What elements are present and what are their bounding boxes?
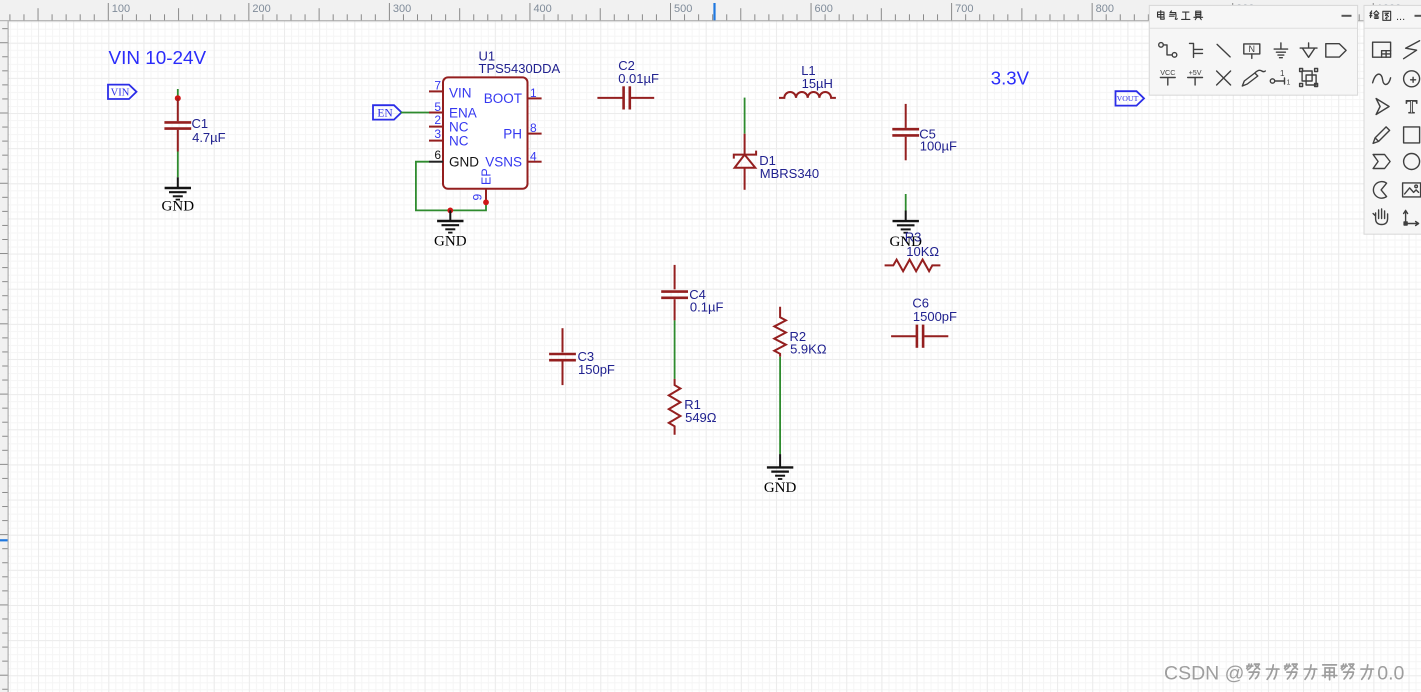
icon pencil [1373, 127, 1390, 144]
wire stub above junction [177, 89, 179, 98]
icon origin tool [1404, 211, 1419, 226]
left ruler cursor mark [0, 539, 8, 541]
netflag VIN [108, 85, 137, 99]
svg-text:8: 8 [530, 121, 537, 135]
svg-text:NC: NC [449, 119, 469, 134]
ground GND (under U1) [434, 210, 467, 249]
ground GND (under C1) [162, 177, 195, 214]
U1 pin 4 VSNS [528, 161, 542, 163]
svg-text:EN: EN [377, 107, 393, 119]
svg-text:GND: GND [434, 233, 467, 249]
svg-text:T: T [1406, 97, 1418, 118]
icon net label tool [1244, 44, 1260, 59]
panel: electrical tools [1149, 5, 1357, 95]
svg-text:0.0: 0.0 [1377, 663, 1404, 685]
svg-text:+5V: +5V [1189, 68, 1202, 77]
svg-text:200: 200 [252, 3, 270, 15]
svg-text:5.9KΩ: 5.9KΩ [790, 342, 827, 357]
left ruler ticks [2, 28, 7, 30]
svg-text:GND: GND [162, 199, 195, 215]
icon VCC tool [1160, 68, 1175, 85]
svg-text:N: N [1249, 44, 1256, 54]
svg-text:4: 4 [530, 149, 537, 163]
icon pin tool [1270, 69, 1290, 87]
netflag VOUT [1116, 91, 1145, 105]
icon wire tool [1159, 43, 1177, 58]
panel: drawing tools [1364, 5, 1421, 234]
diode D1 MBRS340 (schottky) [734, 134, 819, 190]
icon rect tool [1404, 127, 1420, 143]
svg-text:300: 300 [393, 3, 411, 15]
icon line tool [1217, 44, 1230, 57]
svg-text:15µH: 15µH [802, 76, 833, 91]
svg-text:VCC: VCC [1160, 68, 1175, 77]
U1 pin 6 GND [429, 161, 443, 163]
svg-text:MBRS340: MBRS340 [760, 166, 819, 181]
junction dot (EP pin) [483, 199, 489, 205]
svg-text:VSNS: VSNS [485, 155, 522, 170]
svg-text:VIN: VIN [111, 87, 130, 98]
capacitor C3 [549, 328, 615, 385]
svg-text:GND: GND [764, 480, 797, 496]
top ruler cursor mark [713, 3, 715, 20]
capacitor C4 [661, 265, 723, 321]
svg-text:BOOT: BOOT [484, 91, 522, 106]
icon arc tool [1373, 182, 1386, 199]
wire to D1 [744, 98, 746, 134]
wire C5 to ground [905, 194, 907, 211]
svg-text:9: 9 [471, 194, 485, 201]
watermark CSDN [1164, 663, 1405, 685]
icon symbol-wizard [1373, 42, 1391, 57]
svg-text:VOUT: VOUT [1117, 94, 1139, 103]
wire C1 to ground [177, 152, 179, 178]
wire R2 to ground [779, 357, 781, 454]
svg-text:700: 700 [955, 3, 973, 15]
svg-text:4.7µF: 4.7µF [192, 130, 226, 145]
icon ground alt tool [1300, 43, 1317, 57]
svg-text:TPS5430DDA: TPS5430DDA [479, 61, 561, 76]
icon ground tool [1274, 43, 1287, 58]
svg-text:3.3V: 3.3V [991, 67, 1030, 88]
junction dot (gnd wire) [447, 208, 453, 214]
U1 pin 3 NC [429, 140, 443, 142]
svg-text:...: ... [1396, 11, 1405, 23]
icon no-connect tool [1217, 71, 1231, 85]
svg-text:NC: NC [449, 133, 469, 148]
svg-text:500: 500 [674, 3, 692, 15]
top ruler [0, 0, 1421, 20]
U1 pin 5 ENA [429, 112, 443, 114]
U1 pin 7 VIN [429, 90, 443, 92]
svg-text:EP: EP [480, 168, 494, 185]
capacitor C6 [891, 296, 957, 348]
svg-text:3: 3 [434, 127, 441, 141]
svg-text:549Ω: 549Ω [685, 410, 717, 425]
U1 pin 9 EP [485, 189, 487, 203]
left ruler [0, 21, 8, 692]
icon hand tool [1373, 209, 1388, 225]
icon circle tool [1404, 154, 1420, 170]
svg-text:5: 5 [434, 100, 441, 114]
svg-text:GND: GND [449, 155, 479, 170]
icon image tool [1403, 183, 1421, 197]
svg-text:600: 600 [815, 3, 833, 15]
U1 pin 2 NC [429, 126, 443, 128]
icon polygon tool [1373, 155, 1390, 169]
svg-text:100: 100 [112, 3, 130, 15]
svg-text:800: 800 [1096, 3, 1114, 15]
ground GND (under C5) [889, 211, 922, 250]
icon +5V tool [1188, 68, 1203, 85]
netflag EN [373, 105, 402, 119]
svg-text:0.1µF: 0.1µF [690, 300, 724, 315]
U1 pin 1 BOOT [528, 97, 542, 99]
inductor L1 [779, 63, 836, 98]
capacitor C5 [892, 104, 957, 160]
wire C4 to R1 [674, 320, 676, 379]
svg-text:10KΩ: 10KΩ [906, 244, 939, 259]
resistor R1 549 [669, 379, 717, 435]
resistor R2 5.9K [774, 307, 827, 357]
svg-text:1: 1 [1287, 80, 1291, 87]
icon bus tool [1190, 43, 1203, 57]
svg-text:1500pF: 1500pF [913, 309, 957, 324]
icon group tool [1300, 69, 1318, 87]
U1 pin 8 PH [528, 133, 542, 135]
capacitor C2 [597, 58, 659, 110]
svg-text:150pF: 150pF [578, 362, 615, 377]
svg-text:100µF: 100µF [920, 139, 957, 154]
svg-text:PH: PH [503, 127, 522, 142]
op-amp U1 TPS5430DDA body [443, 77, 528, 188]
svg-text:1: 1 [1280, 69, 1285, 78]
icon bezier [1373, 74, 1391, 84]
icon lightning/wire draw [1404, 41, 1420, 59]
svg-text:6: 6 [434, 148, 441, 162]
top ruler ticks [9, 14, 11, 20]
svg-text:0.01µF: 0.01µF [618, 71, 659, 86]
svg-text:1: 1 [530, 86, 537, 100]
icon netflag tool [1326, 44, 1346, 57]
svg-text:CSDN @: CSDN @ [1164, 663, 1244, 685]
capacitor C1 [164, 98, 225, 151]
wire U1 pin6 to ground / EP [416, 162, 486, 211]
ground GND (under R2) [764, 454, 797, 496]
svg-text:7: 7 [434, 79, 441, 93]
svg-text:R3: R3 [905, 230, 922, 245]
svg-text:2: 2 [434, 113, 441, 127]
icon arrowhead [1376, 99, 1389, 115]
svg-text:VIN: VIN [449, 85, 472, 100]
icon probe tool [1242, 70, 1265, 86]
wire EN to U1 pin 5 [401, 112, 429, 114]
junction dot node VIN [175, 95, 181, 101]
resistor R3 10K [885, 230, 941, 272]
icon arc-center [1404, 71, 1420, 87]
svg-text:C1: C1 [192, 116, 209, 131]
svg-text:400: 400 [533, 3, 551, 15]
svg-text:VIN 10-24V: VIN 10-24V [109, 48, 207, 69]
icon text tool [1406, 97, 1418, 118]
